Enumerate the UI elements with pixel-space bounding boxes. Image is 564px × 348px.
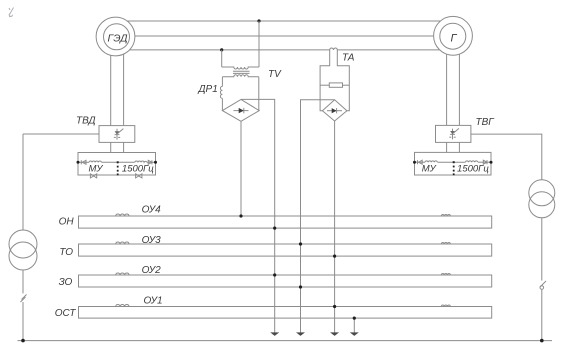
svg-text:ОУ1: ОУ1 [144, 295, 163, 306]
wire ОУ1 bottom stub [353, 318, 355, 333]
motor ГЭД [96, 17, 135, 56]
wire ТВГ to МУ left [446, 142, 448, 152]
wire left transformer to bottom bus [22, 302, 24, 341]
wire ТВД to МУ left [110, 142, 112, 152]
wire Г drop left [446, 36, 448, 125]
wire Г drop right [458, 36, 460, 125]
svg-text:ГЭД: ГЭД [107, 33, 128, 45]
wire TA secondary left lead [320, 50, 330, 111]
svg-text:ДР1: ДР1 [198, 84, 218, 95]
transformer TV secondary winding [222, 75, 258, 77]
wire ГЭД drop left [110, 36, 112, 126]
inductor ДР1 [220, 86, 222, 98]
node bottom bus left [21, 339, 25, 343]
winding rail ЗО / ОУ2 [59, 265, 492, 288]
transformer T1 (left) [9, 230, 37, 270]
svg-text:ОН: ОН [59, 216, 75, 227]
thyristor block ТВГ [436, 125, 471, 142]
wire bus phase 2 [116, 35, 454, 37]
node on ОУ2 top [273, 273, 276, 276]
wire TV primary left lead [221, 50, 223, 67]
transformer T2 (right) [529, 180, 555, 218]
wire left transformer bottom lead [22, 270, 24, 293]
wire bus phase 3 with TA primary [116, 48, 454, 50]
wire bus phase 1 [116, 20, 454, 22]
node on ОУ3 top [299, 242, 302, 245]
svg-text:ТВД: ТВД [76, 116, 96, 127]
corner mark [9, 8, 14, 18]
svg-text:ОУ4: ОУ4 [142, 204, 162, 215]
node on ОУ4 bottom [273, 227, 276, 230]
wire TV primary right lead [258, 21, 260, 67]
svg-text:ОСТ: ОСТ [55, 308, 77, 319]
svg-text:1500Гц: 1500Гц [457, 164, 489, 175]
ground arrow 3 [330, 332, 339, 336]
wire bridge VD1 top output down rail [241, 99, 275, 333]
generator Г [434, 16, 473, 55]
wire TA secondary right lead [337, 50, 349, 111]
node on bus 1 (TV tap) [257, 19, 260, 22]
resistor R (TA burden) [320, 83, 349, 87]
node on ОУ4 top [239, 214, 242, 217]
svg-text:1500Гц: 1500Гц [122, 164, 154, 175]
svg-text:Г: Г [451, 32, 458, 44]
svg-text:ТО: ТО [59, 247, 73, 258]
svg-text:МУ: МУ [422, 164, 437, 175]
wire ТВГ to right transformer [471, 134, 542, 180]
svg-text:МУ: МУ [89, 164, 104, 175]
node on ОУ2 bottom [299, 285, 302, 288]
break mark left [21, 295, 27, 303]
thyristor block ТВД [99, 126, 135, 143]
svg-text:ЗО: ЗО [59, 277, 73, 288]
svg-text:TV: TV [268, 69, 282, 80]
svg-text:ОУ2: ОУ2 [142, 265, 162, 276]
winding rail ТО / ОУ3 [59, 235, 491, 258]
wire bottom bus [18, 340, 553, 342]
wire bridge VD1 bottom output to ОУ4 [240, 121, 242, 216]
wire TV secondary right lead [258, 77, 260, 111]
rectifier bridge VD1 (TV side) [222, 99, 259, 121]
transformer TV core [233, 71, 250, 73]
wire right transformer to bottom bus [541, 290, 543, 341]
wire left transformer top lead [22, 134, 24, 230]
node on ОУ1 top [333, 305, 336, 308]
magnetic amplifier block МУ/1500Гц left [77, 153, 158, 178]
wire ТВД to МУ right [123, 142, 125, 152]
break mark right [540, 281, 546, 289]
svg-text:ТА: ТА [342, 53, 355, 64]
svg-text:ОУ3: ОУ3 [142, 235, 162, 246]
wire ГЭД drop right [123, 36, 125, 126]
wire TV secondary left lead [221, 77, 223, 87]
wire bridge VD2 top output down rail [301, 100, 335, 333]
wire ДР1 to bridge [221, 98, 223, 110]
transformer TV primary winding [222, 67, 259, 69]
ground arrow 4 [350, 332, 359, 336]
winding rail ОН / ОУ4 [59, 204, 492, 228]
ground arrow 1 [270, 332, 279, 336]
node on ОУ1 bottom [353, 317, 356, 320]
node on bus 3 (TV tap) [220, 48, 223, 51]
wire right transformer bottom lead [541, 218, 543, 281]
node bottom bus right [540, 339, 544, 343]
magnetic amplifier block МУ/1500Гц right [413, 152, 493, 175]
wire ТВГ to МУ right [458, 142, 460, 152]
node on ОУ3 bottom [333, 255, 336, 258]
wire ТВД to left transformer [23, 133, 99, 135]
rectifier bridge VD2 (TA side) [322, 100, 347, 121]
svg-text:ТВГ: ТВГ [476, 117, 496, 128]
wire bridge VD2 bottom output down rail [334, 121, 336, 333]
ground arrow 2 [296, 332, 305, 336]
winding rail ОСТ / ОУ1 [55, 295, 492, 318]
